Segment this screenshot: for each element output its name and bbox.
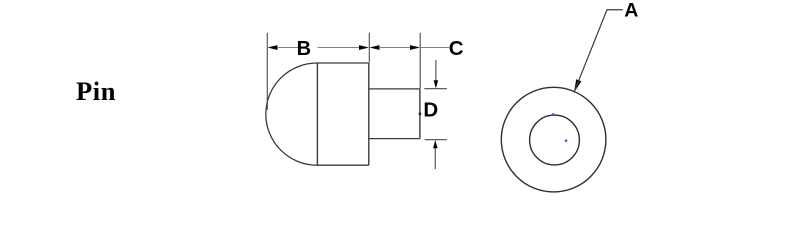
dimension D bottom arrow stem (434, 148, 436, 170)
shaft right edge (419, 89, 421, 139)
dimension B right arrowhead (359, 45, 369, 50)
dimension C line middle segment (379, 47, 411, 49)
shared extension line B-right / C-left (368, 33, 370, 63)
dimension B line left segment (277, 47, 299, 49)
dimension D bottom extension line (425, 139, 447, 141)
front view outer circle (501, 87, 606, 192)
dimension B left arrowhead (268, 45, 278, 50)
dimension D top arrowhead (pointing down) (434, 80, 439, 88)
dimension D top extension line (424, 88, 447, 90)
svg-text:C: C (449, 37, 464, 60)
vertex marker dot (top of inner circle) (552, 113, 554, 115)
pin head dome arc (266, 63, 317, 165)
body bottom edge (317, 164, 369, 166)
vertex marker dot (shaft right edge midpoint) (419, 113, 421, 115)
dimension C right arrowhead (410, 45, 420, 50)
svg-text:Pin: Pin (76, 76, 116, 106)
shaft bottom edge (369, 138, 420, 140)
svg-text:A: A (624, 0, 638, 21)
dimension D bottom arrowhead (pointing up) (433, 140, 438, 148)
dimension B extension line (left) (266, 33, 268, 110)
shaft top edge (369, 88, 420, 90)
body right edge (368, 63, 370, 165)
vertex marker dot (center) (565, 140, 567, 142)
dimension C extension line (right) (419, 33, 421, 89)
leader A arrowhead (574, 79, 581, 92)
leader A line (575, 10, 623, 91)
body top edge (317, 62, 369, 64)
svg-text:D: D (423, 99, 438, 122)
dome/body boundary line (316, 63, 318, 165)
dimension C left arrowhead (370, 45, 380, 50)
dimension D top arrow stem (435, 60, 437, 81)
dimension B line right segment (318, 47, 360, 49)
svg-text:B: B (297, 38, 311, 60)
dimension C leader to label (420, 47, 449, 49)
front view inner circle (530, 115, 580, 165)
